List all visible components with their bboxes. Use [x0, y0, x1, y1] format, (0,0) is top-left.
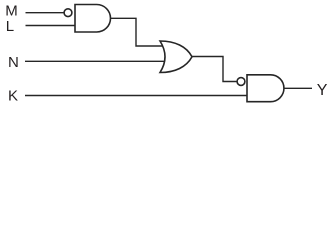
svg-text:Y: Y [317, 82, 328, 99]
svg-text:L: L [6, 18, 14, 35]
svg-text:N: N [8, 54, 19, 71]
svg-text:M: M [5, 3, 18, 20]
svg-text:K: K [8, 88, 18, 105]
